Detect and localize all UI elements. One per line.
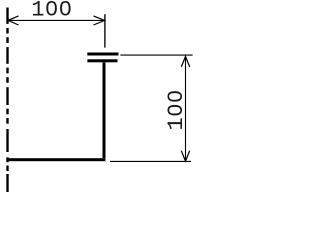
svg-text:100: 100 <box>31 0 72 23</box>
